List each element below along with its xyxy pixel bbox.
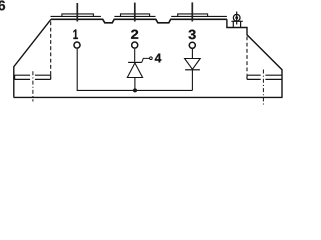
gate terminal post crosshair circle (233, 14, 240, 21)
gate terminal post center dot (235, 16, 238, 19)
label 4 (155, 54, 162, 63)
gate terminal post pedestal (233, 21, 240, 28)
label 3 (188, 30, 195, 40)
label 2 (131, 30, 138, 39)
terminal 1 circle (74, 42, 80, 48)
terminal 3 circle (189, 42, 195, 48)
hidden edge right (dashed) (246, 37, 248, 75)
wire: terminal 1 down to common rail (76, 49, 78, 91)
package outline (solid visible profile) (13, 19, 282, 97)
wire: diode cathode down to rail (191, 70, 193, 91)
hidden edge left (dashed) (50, 22, 52, 76)
mounting slot left (15, 75, 51, 79)
wire: terminal 2 to thyristor cathode (134, 49, 136, 62)
diode V2 cathode bar (185, 69, 200, 71)
wire: common rail (77, 89, 193, 91)
gate terminal post cross lines (231, 12, 242, 25)
mounting slot right (247, 75, 282, 79)
terminal 1 centerline (76, 3, 78, 22)
terminal pad 3 (raised cap) (178, 14, 208, 17)
terminal pad 1 (raised cap) (62, 14, 94, 17)
gate terminal 4 circle (150, 57, 153, 60)
terminal base plate line (51, 15, 227, 17)
label 1 (73, 30, 78, 39)
text fragment "6" (clipped page number at top-left) (0, 0, 5, 10)
wire: gate lead (142, 58, 150, 62)
terminal 2 circle (132, 42, 138, 48)
diode V2 triangle (185, 59, 201, 70)
node junction dot on rail (133, 88, 137, 92)
terminal 2 centerline (134, 3, 136, 22)
thyristor V1 cathode bar (128, 61, 142, 63)
terminal 3 centerline (191, 2, 193, 21)
terminal pad 2 (raised cap) (121, 14, 150, 17)
wire: thyristor anode down to rail (134, 78, 136, 91)
wire: terminal 3 to diode anode (191, 49, 193, 59)
thyristor V1 triangle (127, 63, 142, 78)
mounting hole centerline left (dash-dot) (32, 71, 34, 101)
package top edge with notches (51, 19, 227, 23)
mounting hole centerline right (dash-dot) (262, 70, 264, 105)
